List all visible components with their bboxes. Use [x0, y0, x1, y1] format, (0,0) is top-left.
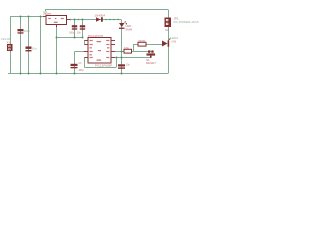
diode D3 LED right [162, 41, 168, 47]
svg-text:X1: X1 [7, 40, 11, 44]
junction y37 net / regulator gnd [56, 37, 58, 39]
wire diode D3 bottom down to ground rail [168, 46, 170, 74]
svg-text:7805T: 7805T [43, 12, 52, 16]
svg-text:5MM: 5MM [126, 27, 133, 31]
svg-text:100n: 100n [69, 33, 75, 35]
svg-text:RESET: RESET [146, 61, 156, 65]
wire y57 net right of IC [111, 57, 151, 59]
svg-text:PIC12F629P: PIC12F629P [95, 63, 112, 67]
wire cap branch x82 top [82, 20, 84, 38]
diode D1 series [96, 17, 101, 22]
svg-text:1N4004: 1N4004 [95, 14, 106, 18]
junction ground rail / x40 [40, 73, 42, 75]
IC pin stubs left [84, 41, 88, 58]
junction output net / C6 [82, 19, 84, 21]
svg-text:X2: X2 [165, 28, 169, 32]
LED D2 [119, 23, 125, 27]
node dots on output net at caps [70, 19, 72, 21]
svg-text:100u: 100u [24, 29, 31, 33]
wire top +V rail from regulator area to right connector [45, 10, 168, 12]
junction ground rail / x121 [121, 73, 123, 75]
capacitor C4 [118, 64, 125, 66]
junction output net / C5 [74, 19, 76, 21]
capacitor C1 (elco) [18, 29, 24, 31]
junction y57 net / x121 [121, 57, 123, 59]
wire y37 cap return net [57, 37, 83, 39]
wire regulator GND x56 vertical [56, 25, 58, 74]
svg-text:10u: 10u [77, 33, 82, 35]
wire ground rail [8, 73, 168, 75]
wire regulator output y19 [67, 19, 121, 21]
svg-text:10k: 10k [124, 46, 129, 50]
wire y67 under IC [85, 67, 117, 69]
junction y37 net / C5 [74, 37, 76, 39]
connector X2 [165, 18, 172, 28]
wire horizontal y44 from corner to D3 [133, 44, 162, 46]
wire x74 vertical C3 branch [74, 52, 76, 74]
junction input net / x40 branch [40, 16, 42, 18]
wire x121 vertical LED branch to ground [121, 20, 123, 74]
svg-text:PIC12F675: PIC12F675 [88, 34, 104, 38]
capacitor C6 output [80, 25, 85, 27]
IC1 pin name marks [48, 18, 51, 19]
junction input net / C1 [20, 16, 22, 18]
junction y51 net / switch S1 [150, 51, 152, 53]
junction ground rail / x28 [28, 73, 30, 75]
wire input net y16 [10, 16, 46, 18]
junction y57 net / x116 [116, 57, 118, 59]
wire x116 stub up to IC right pin [116, 58, 118, 68]
junction ground rail / x56 [56, 73, 58, 75]
wire x40 vertical branch [40, 17, 42, 74]
regulator pin stubs [43, 17, 70, 28]
wire corner x133 down to y51 net [133, 45, 135, 53]
IC pin stubs right [111, 41, 115, 58]
switch S1 [148, 50, 150, 52]
svg-text:10u: 10u [32, 47, 37, 51]
wire x28 vertical C2 branch [28, 17, 30, 74]
svg-text:10n: 10n [126, 65, 131, 67]
IC2 pin name marks inside [90, 40, 93, 41]
wire x20 vertical C1 branch [20, 17, 22, 74]
wire X2 bottom to diode D3 [168, 27, 170, 41]
capacitor C5 output [72, 25, 77, 27]
resistor R3 [138, 42, 146, 46]
resistor R2 [124, 49, 132, 53]
junction ground rail / x20 [20, 73, 22, 75]
svg-text:C3: C3 [79, 63, 83, 65]
junction y51 net / x121 [121, 51, 123, 53]
svg-text:330R: 330R [138, 39, 146, 43]
junction ground rail / C3 [74, 73, 76, 75]
wire x10 vertical to X1 connector [10, 17, 12, 74]
wire cap branch x74 top [74, 20, 76, 38]
svg-text:GN: GN [172, 39, 177, 43]
wire y51 net right of IC [111, 51, 151, 53]
capacitor C3 [71, 64, 78, 66]
junction y37 net / C6 [82, 37, 84, 39]
node dots on output net after D1 [105, 19, 107, 21]
microcontroller IC2 box [88, 38, 111, 64]
connector X1 supply [7, 44, 13, 51]
wire x84 down from IC pin to y67 [84, 58, 86, 68]
svg-text:DC-POWER-JACK: DC-POWER-JACK [174, 20, 199, 24]
svg-text:100n: 100n [79, 70, 85, 72]
junction input net / C2 [28, 16, 30, 18]
capacitor C2 (elco) [26, 47, 32, 49]
voltage regulator IC1 7805 box [46, 16, 67, 25]
wire vertical to connector X2 [168, 10, 170, 19]
wire y51 net left of IC [75, 51, 89, 53]
